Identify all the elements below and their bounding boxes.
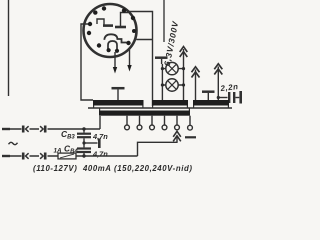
upper mains line — [2, 128, 10, 130]
AC symbol — [9, 142, 18, 144]
transformer winding A1 (HT secondary) — [93, 100, 144, 106]
cathode arc — [104, 34, 127, 42]
wire lamp stubs left — [162, 69, 166, 85]
fuse 1A — [58, 153, 76, 159]
anode plate left bar — [103, 24, 113, 27]
primary end tap — [189, 116, 191, 126]
voltage selector arrow (up) — [176, 137, 178, 143]
tube V1 envelope circle — [84, 4, 137, 57]
heater lead arrow 1 (down) — [114, 52, 116, 68]
wire up-arrow rail B (to A3 winding) — [217, 67, 219, 101]
anode plate right bar — [115, 26, 126, 29]
wire cathode output to rail — [136, 39, 152, 41]
svg-text:(110-127V) 400mA (150,220,240: (110-127V) 400mA (150,220,240V-nid) — [33, 164, 193, 173]
transformer winding A3 — [193, 100, 229, 106]
wire anode-right to lamp branch (top right vertical) — [128, 12, 153, 107]
tube pin dots — [87, 6, 136, 53]
connector pair 1 lower — [22, 153, 25, 160]
wire from top edge to lamp terminal — [163, 0, 165, 42]
winding end ticks — [94, 106, 229, 111]
terminal T above winding S1 — [112, 87, 125, 90]
capacitor CB4 — [77, 147, 91, 149]
terminal T above winding A3 — [202, 90, 215, 93]
capacitor CB3 — [83, 129, 85, 133]
connector pair 2 upper — [40, 126, 43, 132]
transformer winding A2 (heater secondary) — [152, 100, 188, 106]
wire up-arrow rail A (to A3 winding) — [195, 70, 197, 101]
lower mains line — [2, 155, 10, 157]
midpoint wire to chassis terminal — [84, 142, 98, 144]
connector pair 2 lower — [40, 153, 43, 159]
junction dots mains filter — [82, 127, 85, 157]
pilot lamp La2 — [166, 79, 178, 91]
connector pair 1 upper — [22, 126, 25, 133]
heater filament — [108, 41, 117, 51]
wire anode-left to transformer (down left side) — [81, 24, 93, 100]
pilot lamp La1 — [166, 62, 178, 74]
terminal bar right of 2,2n — [239, 91, 242, 104]
terminal dash below end tap — [185, 136, 196, 138]
wire lamp stubs right — [178, 69, 183, 85]
svg-text:4,7n: 4,7n — [92, 132, 108, 141]
svg-text:1A: 1A — [54, 148, 63, 155]
capacitor 2,2n — [218, 97, 227, 99]
heater lead arrow 2 (down) — [129, 48, 131, 66]
junction dots lamp rails — [161, 67, 185, 87]
wire selector to lower mains — [138, 142, 178, 156]
wire right lamp rail with up arrow — [183, 49, 185, 100]
transformer core line — [88, 107, 232, 109]
transformer primary winding B — [99, 111, 190, 116]
terminal T above lamp chain — [155, 56, 168, 59]
wire left border vertical — [8, 0, 10, 96]
anode plate right lead — [121, 13, 129, 27]
anode plate left (pin lead) — [97, 19, 104, 25]
svg-text:4,7n: 4,7n — [92, 150, 108, 159]
wire lamp mid rail — [161, 64, 163, 100]
primary tap stubs and terminals — [126, 116, 128, 125]
